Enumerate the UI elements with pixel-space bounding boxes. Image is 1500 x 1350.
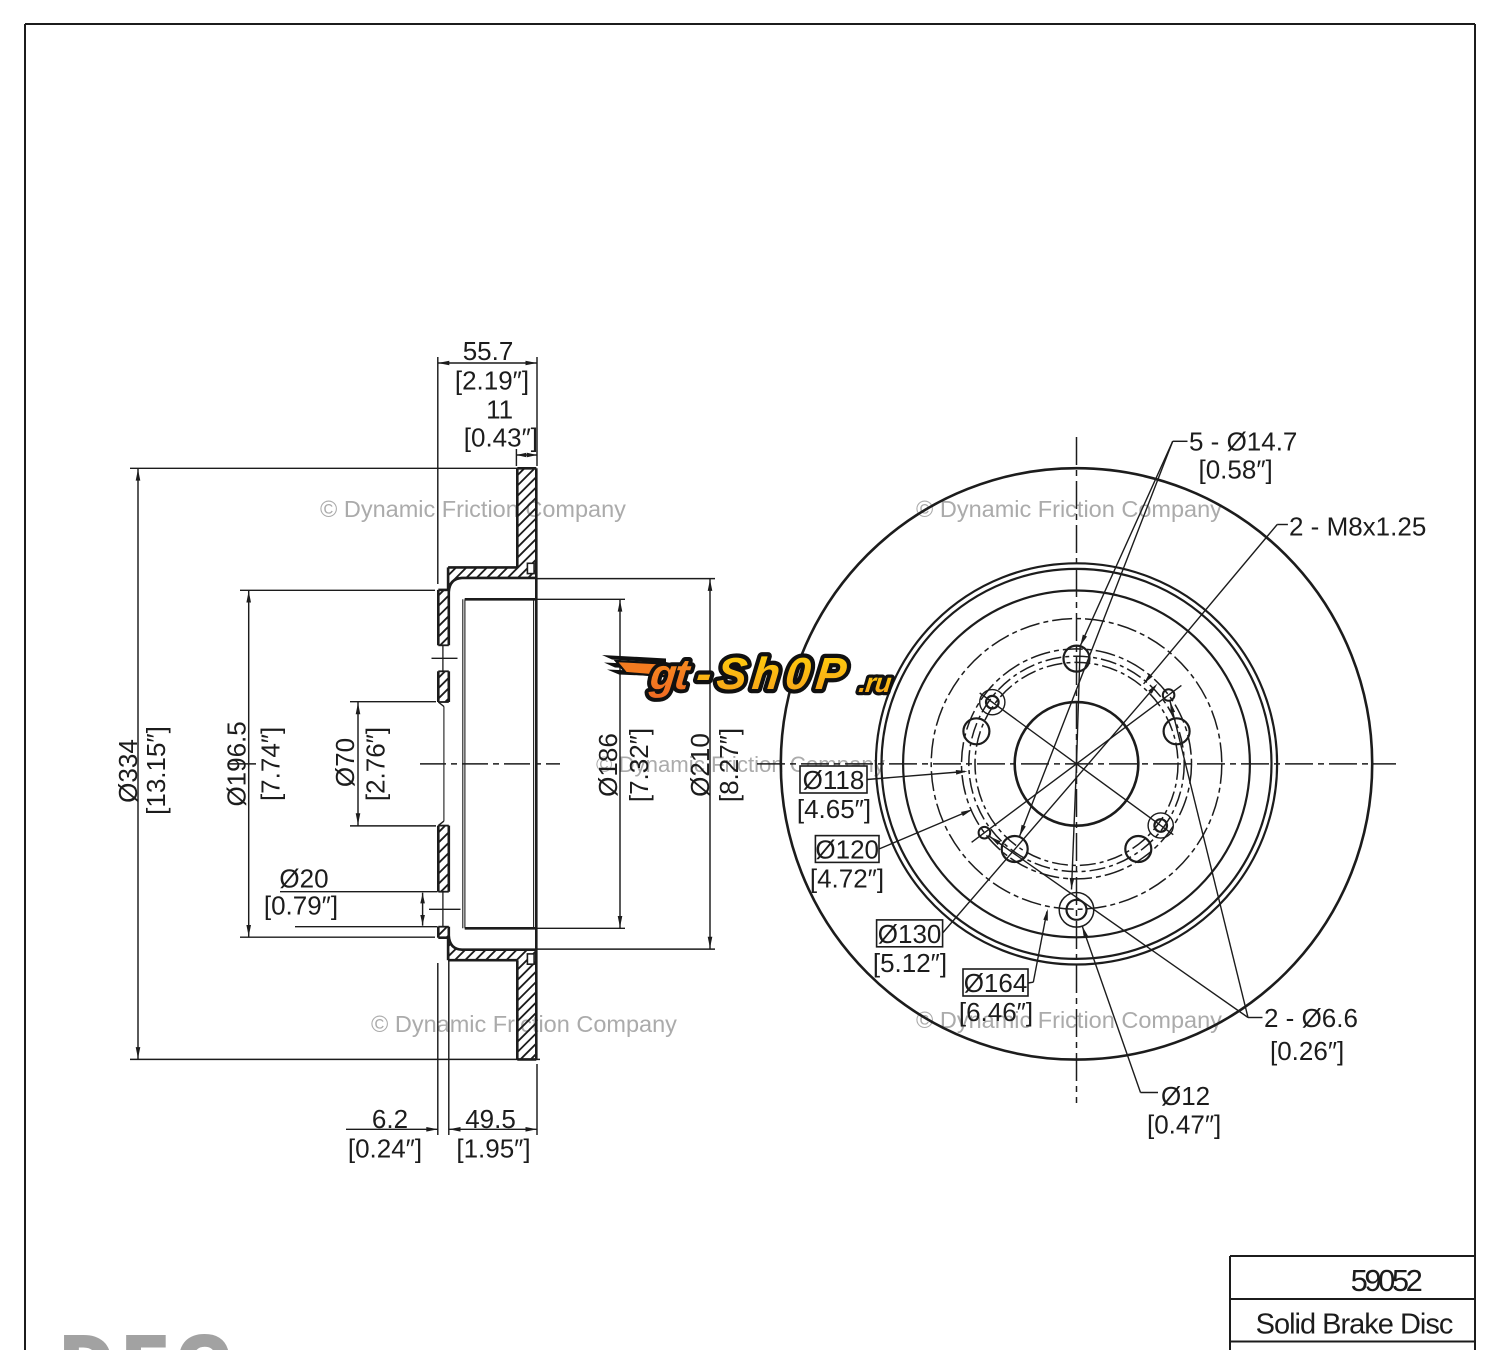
svg-text:© Dynamic Friction Company: © Dynamic Friction Company bbox=[320, 496, 626, 522]
svg-text:[8.27″]: [8.27″] bbox=[714, 728, 744, 802]
label Ø120 boxed + leader bbox=[810, 810, 973, 894]
svg-text:[0.26″]: [0.26″] bbox=[1270, 1036, 1344, 1066]
label 2-Ø6.6 bbox=[1264, 1003, 1358, 1066]
drum rim circle outer bbox=[876, 563, 1277, 964]
dimension Ø186 bbox=[536, 599, 654, 928]
svg-text:[0.79″]: [0.79″] bbox=[264, 891, 338, 921]
dimension Ø20 flange hole bbox=[264, 864, 438, 927]
watermark middle bbox=[596, 752, 886, 777]
svg-text:[0.43″]: [0.43″] bbox=[464, 423, 538, 453]
svg-text:5 - Ø14.7: 5 - Ø14.7 bbox=[1189, 427, 1297, 457]
watermark bottom right bbox=[916, 1007, 1222, 1033]
2 M8x1.25 threaded holes bbox=[980, 690, 1174, 839]
5 lug holes Ø14.7 bbox=[963, 646, 1189, 862]
svg-text:2 - Ø6.6: 2 - Ø6.6 bbox=[1264, 1003, 1358, 1033]
leaders 2-Ø6.6 bbox=[990, 701, 1263, 1017]
svg-text:Ø120: Ø120 bbox=[815, 835, 879, 865]
dimension 11 disc thickness bbox=[464, 395, 538, 467]
outer circle Ø334 bbox=[781, 468, 1372, 1059]
DFC logo fragment bbox=[62, 1323, 241, 1350]
rim relief notch bottom bbox=[527, 954, 534, 964]
svg-text:Ø70: Ø70 bbox=[330, 738, 360, 787]
bolt circle Ø164 dash-dot bbox=[931, 619, 1222, 910]
label Ø118 boxed + leader bbox=[797, 765, 968, 824]
title block table bbox=[1230, 1256, 1475, 1350]
svg-text:[0.58″]: [0.58″] bbox=[1199, 455, 1273, 485]
label 5-Ø14.7 bbox=[1189, 427, 1297, 485]
Ø12 hole with Ø20 counterbore bbox=[1059, 893, 1094, 928]
dimension Ø196.5 bbox=[222, 590, 435, 937]
dimension 55.7 overall width bbox=[438, 336, 537, 584]
left view center axis bbox=[228, 763, 560, 765]
section interior profile bbox=[449, 578, 537, 950]
bolt circle Ø120 dash-dot bbox=[969, 656, 1184, 871]
dimension Ø70 bore bbox=[330, 702, 436, 826]
label Ø12 bbox=[1147, 1081, 1221, 1140]
right view center axis vertical bbox=[1076, 437, 1078, 1103]
svg-text:Ø164: Ø164 bbox=[964, 968, 1028, 998]
svg-text:2 - M8x1.25: 2 - M8x1.25 bbox=[1289, 512, 1426, 542]
drum rim circle inner bbox=[882, 569, 1272, 959]
dimensions 6.2 and 49.5 bbox=[346, 952, 537, 1164]
Ø6.6 holes diameter line bbox=[972, 685, 1182, 842]
dimension Ø210 bbox=[537, 579, 744, 950]
2 Ø6.6 holes bbox=[979, 689, 1175, 838]
label Ø130 boxed + leader bbox=[873, 684, 1158, 978]
section outer profile bbox=[438, 468, 536, 1059]
svg-text:-Sh0P: -Sh0P bbox=[694, 648, 854, 699]
bolt circle Ø118 dash-dot bbox=[975, 662, 1178, 865]
svg-text:6.2: 6.2 bbox=[372, 1104, 408, 1134]
svg-text:[0.24″]: [0.24″] bbox=[348, 1134, 422, 1164]
leader 5-Ø14.7 to bottom-left hole bbox=[1020, 441, 1173, 836]
rim relief notch top bbox=[527, 563, 534, 573]
svg-text:[4.65″]: [4.65″] bbox=[797, 794, 871, 824]
svg-text:DFC: DFC bbox=[62, 1323, 241, 1350]
svg-text:55.7: 55.7 bbox=[463, 336, 514, 366]
watermark top left bbox=[320, 496, 626, 522]
dimension Ø334 outer diameter bbox=[113, 468, 540, 1059]
svg-text:Ø130: Ø130 bbox=[878, 919, 942, 949]
part number 59052 bbox=[1351, 1263, 1422, 1298]
lug hole in flange (section) bbox=[432, 645, 458, 671]
watermark top right bbox=[916, 496, 1222, 522]
title Solid Brake Disc bbox=[1256, 1309, 1453, 1341]
svg-text:[2.76″]: [2.76″] bbox=[361, 727, 391, 801]
svg-text:Solid Brake Disc: Solid Brake Disc bbox=[1256, 1309, 1453, 1341]
svg-text:11: 11 bbox=[486, 395, 513, 425]
gt-shop.ru logo bbox=[602, 648, 894, 699]
drum lip O186 edges bbox=[463, 599, 537, 928]
svg-text:[13.15″]: [13.15″] bbox=[141, 726, 171, 815]
label 2-M8x1.25 bbox=[1289, 512, 1426, 542]
flange hole cutouts bbox=[437, 645, 451, 926]
svg-text:[7.74″]: [7.74″] bbox=[256, 727, 286, 801]
svg-text:Ø196.5: Ø196.5 bbox=[222, 721, 252, 806]
flange edge circle Ø196.5 bbox=[903, 591, 1250, 938]
watermark bottom left bbox=[371, 1011, 677, 1037]
svg-text:Ø210: Ø210 bbox=[685, 733, 715, 797]
label Ø164 boxed + leader bbox=[959, 909, 1048, 1027]
svg-text:[1.95″]: [1.95″] bbox=[456, 1134, 530, 1164]
leader 2-M8x1.25 bbox=[1144, 525, 1288, 684]
O20 hole in flange (section) bbox=[429, 892, 461, 927]
leader Ø12 bbox=[1082, 926, 1158, 1092]
svg-text:[4.72″]: [4.72″] bbox=[810, 863, 884, 893]
leader 5-Ø14.7 to top hole bbox=[1077, 441, 1188, 764]
svg-text:Ø186: Ø186 bbox=[593, 733, 623, 797]
svg-text:49.5: 49.5 bbox=[465, 1104, 516, 1134]
svg-text:59052: 59052 bbox=[1351, 1263, 1422, 1298]
svg-text:.ru: .ru bbox=[857, 667, 893, 698]
svg-text:Ø20: Ø20 bbox=[279, 864, 328, 894]
hub bore circle Ø70 bbox=[1015, 702, 1139, 826]
hub bore O70 (section) bbox=[438, 702, 449, 826]
bolt circle Ø130 dash-dot bbox=[962, 649, 1192, 879]
svg-text:[2.19″]: [2.19″] bbox=[455, 366, 529, 396]
svg-text:[0.47″]: [0.47″] bbox=[1147, 1110, 1221, 1140]
svg-text:© Dynamic Friction Company: © Dynamic Friction Company bbox=[916, 496, 1222, 522]
svg-text:[7.32″]: [7.32″] bbox=[624, 728, 654, 802]
svg-text:[5.12″]: [5.12″] bbox=[873, 948, 947, 978]
svg-text:[6.46″]: [6.46″] bbox=[959, 997, 1033, 1027]
section hatching bbox=[430, 355, 545, 1160]
svg-text:Ø334: Ø334 bbox=[113, 739, 143, 803]
leader center to Ø20 hole bbox=[1070, 764, 1077, 890]
M8 holes diameter line bbox=[980, 693, 1174, 835]
svg-text:Ø12: Ø12 bbox=[1161, 1081, 1210, 1111]
right view center axis horizontal bbox=[757, 763, 1396, 765]
svg-text:Ø118: Ø118 bbox=[803, 765, 865, 795]
